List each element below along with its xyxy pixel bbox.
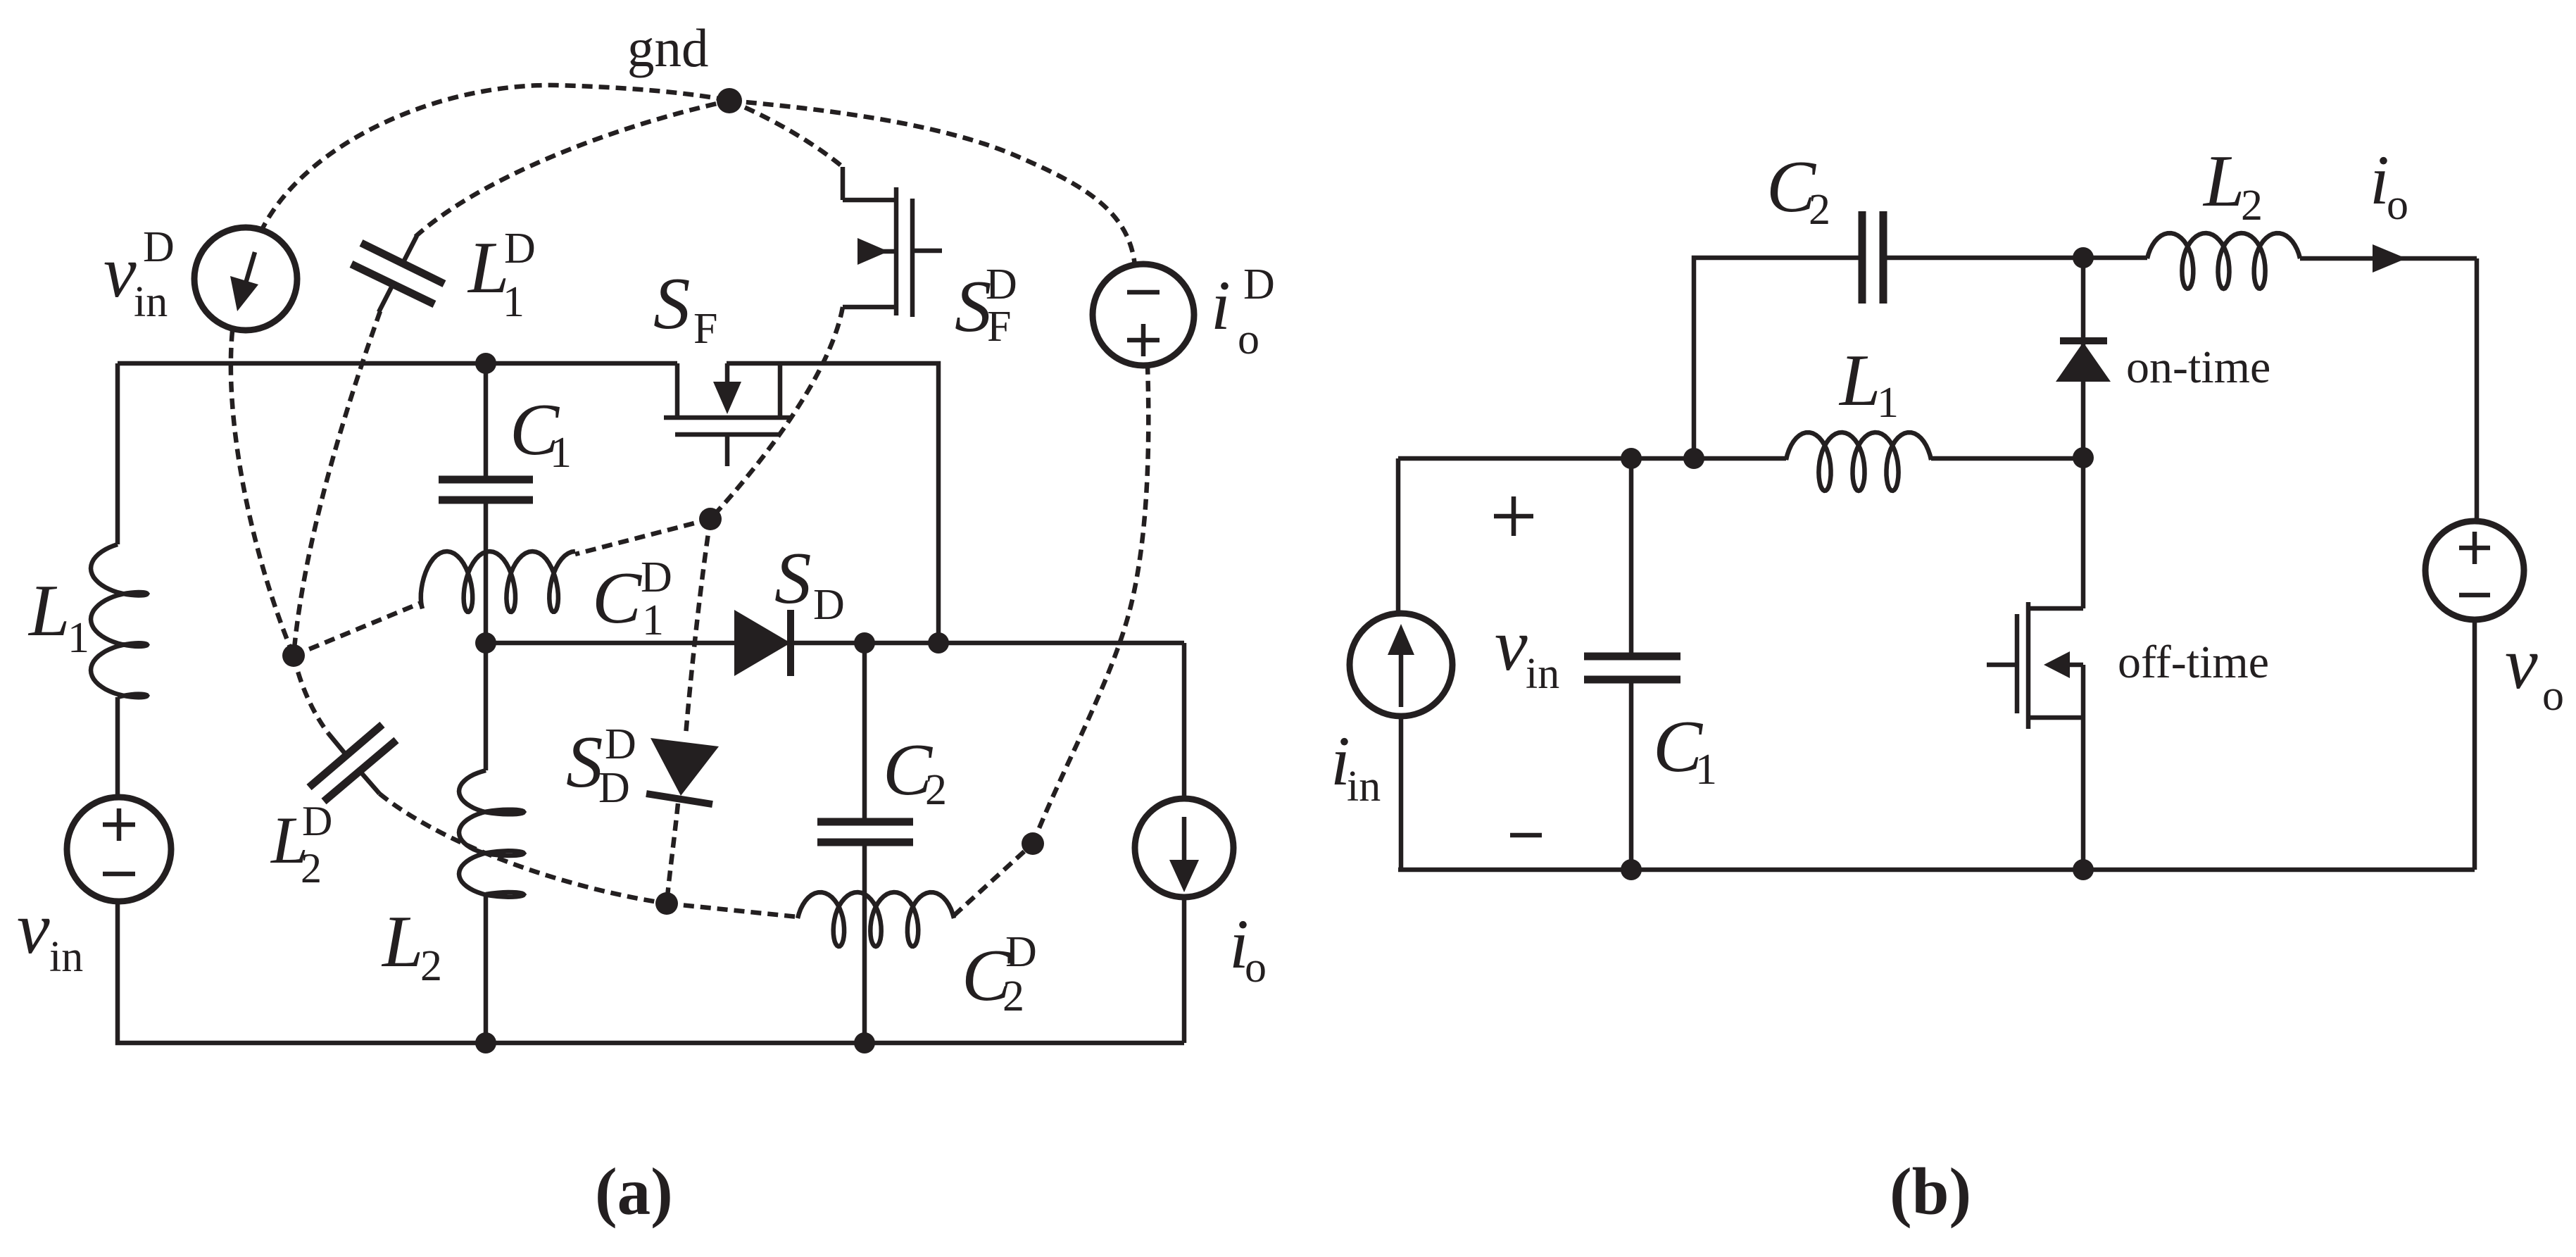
svg-text:D: D xyxy=(504,225,536,273)
svg-text:off-time: off-time xyxy=(2118,637,2269,688)
svg-text:F: F xyxy=(987,303,1011,351)
svg-text:in: in xyxy=(1526,650,1559,698)
svg-text:L: L xyxy=(2202,139,2244,222)
svg-text:L: L xyxy=(1838,339,1880,421)
svg-text:D: D xyxy=(605,720,636,768)
svg-text:S: S xyxy=(774,537,812,619)
svg-text:v: v xyxy=(2505,622,2538,704)
svg-text:(b): (b) xyxy=(1890,1154,1971,1229)
svg-text:1: 1 xyxy=(1877,379,1899,427)
svg-text:L: L xyxy=(27,569,70,651)
svg-text:in: in xyxy=(1347,763,1381,811)
svg-text:1: 1 xyxy=(550,429,572,477)
svg-text:gnd: gnd xyxy=(627,18,709,78)
svg-text:i: i xyxy=(1211,266,1231,344)
svg-text:in: in xyxy=(49,933,83,981)
svg-text:2: 2 xyxy=(420,942,442,990)
svg-text:1: 1 xyxy=(1695,746,1717,794)
svg-text:o: o xyxy=(1238,315,1259,363)
svg-text:2: 2 xyxy=(2241,182,2263,230)
svg-text:2: 2 xyxy=(925,766,947,814)
svg-text:D: D xyxy=(813,581,845,629)
svg-text:(a): (a) xyxy=(595,1154,673,1229)
svg-text:on-time: on-time xyxy=(2126,342,2270,393)
svg-text:1: 1 xyxy=(68,614,89,662)
svg-text:D: D xyxy=(986,261,1017,308)
svg-text:in: in xyxy=(134,278,168,326)
svg-text:C: C xyxy=(592,556,643,639)
svg-text:2: 2 xyxy=(1003,973,1024,1020)
svg-text:D: D xyxy=(598,764,630,812)
svg-text:D: D xyxy=(641,554,672,601)
svg-text:v: v xyxy=(103,230,137,313)
svg-text:D: D xyxy=(1005,928,1037,976)
svg-text:L: L xyxy=(381,900,423,982)
svg-text:S: S xyxy=(566,720,603,803)
svg-text:F: F xyxy=(693,305,717,353)
svg-text:1: 1 xyxy=(642,596,664,644)
svg-text:o: o xyxy=(2542,672,2564,720)
svg-text:o: o xyxy=(1245,944,1267,992)
svg-text:2: 2 xyxy=(1809,186,1830,234)
svg-text:v: v xyxy=(1495,604,1528,686)
svg-text:S: S xyxy=(653,262,691,344)
svg-text:D: D xyxy=(143,223,175,271)
svg-text:1: 1 xyxy=(503,278,524,326)
svg-text:v: v xyxy=(17,887,50,969)
svg-text:D: D xyxy=(1243,261,1275,308)
svg-text:2: 2 xyxy=(301,845,322,892)
svg-text:D: D xyxy=(302,798,332,844)
svg-text:o: o xyxy=(2387,181,2408,229)
